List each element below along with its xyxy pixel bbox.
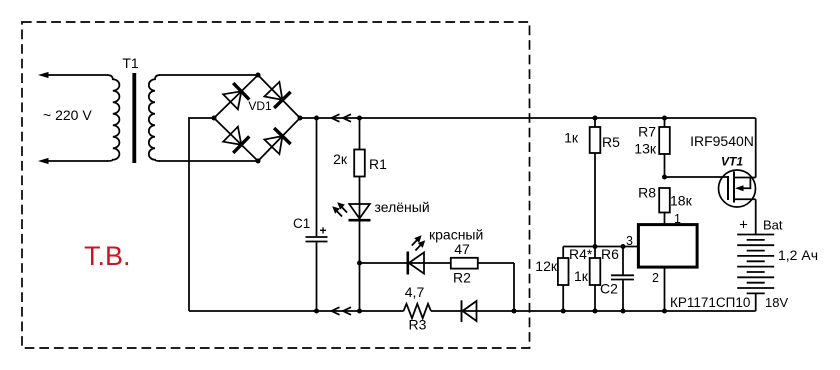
transformer core [132,73,136,163]
svg-text:КР1171СП10: КР1171СП10 [670,295,750,310]
channel bar [733,172,735,203]
node gate R7/R8 junction [662,175,667,180]
wire gate from R7/R8 node [665,176,729,178]
svg-text:R5: R5 [602,134,620,150]
drain stub top [734,177,756,179]
light arrows red LED [412,235,425,250]
battery Bat [737,217,818,312]
light arrows green LED [332,202,347,216]
svg-text:VT1: VT1 [721,155,743,169]
resistor R1 [333,118,387,204]
node bridge DC plus junction [298,116,303,121]
svg-text:R1: R1 [369,156,387,172]
node C2 bottom junction [621,309,626,314]
wire R2 branch down to rail [513,263,515,311]
svg-text:R6: R6 [601,246,619,262]
svg-text:1: 1 [674,212,681,226]
wire top rail [300,117,756,119]
dashed TV enclosure box [22,22,530,348]
node R1 top junction [357,116,362,121]
node bridge AC top junction [256,73,261,78]
node pin3 R5/R6 junction [593,244,598,249]
wire bridge minus to left vertical [189,118,214,311]
node green LED / red branch junction [357,261,362,266]
svg-text:13к: 13к [634,141,657,157]
resistor R2 [451,241,478,286]
wire primary top with arrow [38,72,108,78]
svg-text:Bat: Bat [763,218,783,233]
diode on bottom rail [462,300,477,322]
resistor R5 [564,118,620,247]
node pin3 C2 junction [621,244,626,249]
svg-text:12к: 12к [535,258,558,274]
wire bottom rail right segment [431,310,756,312]
svg-text:18V: 18V [765,295,788,310]
svg-text:47: 47 [454,241,470,257]
svg-text:C1: C1 [293,216,310,231]
svg-text:VD1: VD1 [248,99,272,113]
svg-text:18к: 18к [670,193,693,209]
svg-text:зелёный: зелёный [375,199,430,215]
svg-text:2к: 2к [333,151,348,167]
svg-text:3: 3 [626,234,633,248]
wire primary bottom with arrow [38,158,108,164]
gate electrode [727,176,729,200]
svg-text:R7: R7 [638,124,656,140]
wire secondary top to bridge [159,74,258,76]
diode VD1b (top-right) [264,82,290,108]
resistor R3 (zigzag) [404,284,432,333]
diode VD1c (left-bottom) [223,127,249,153]
diode VD1a (left-top) [223,83,249,109]
capacitor C1 [293,118,328,311]
resistor R8 [638,185,692,225]
svg-text:1,2 Ач: 1,2 Ач [778,247,818,263]
node bridge AC bottom junction [256,159,261,164]
wire pin2 to rail [664,267,666,311]
node C1 bottom junction [314,309,319,314]
resistor R7 [634,118,670,177]
node R6 bottom junction [593,309,598,314]
LED green (zeljony) [332,199,429,311]
svg-text:T1: T1 [122,55,139,71]
resistor R6 [574,246,619,311]
svg-text:4,7: 4,7 [405,284,425,300]
svg-text:R8: R8 [638,185,656,201]
diode VD1d (bottom-right) [264,128,290,154]
source stub bottom [734,198,756,200]
node green LED bottom junction [357,309,362,314]
svg-text:+: + [739,217,748,234]
wire pin3 net [563,246,638,248]
wire node to red LED [360,262,408,264]
wire top rail corner down to MOSFET [755,118,757,178]
capacitor C2 [600,247,634,312]
wire secondary bottom to bridge [159,160,258,162]
wire red LED to R2 and corner [408,262,514,264]
wire MOSFET to battery [755,199,757,234]
node bridge DC minus junction [212,116,217,121]
node pin2 rail junction [662,309,667,314]
LED red (krasny) [408,227,484,275]
current arrows on bottom rail [332,307,352,315]
svg-text:+: + [320,224,327,238]
resistor R4* [535,246,593,311]
node R2/diode rail junction [512,309,517,314]
body arrow stub [742,178,751,189]
svg-text:R2: R2 [453,270,471,286]
svg-text:R3: R3 [409,317,427,333]
svg-text:C2: C2 [600,281,618,297]
svg-text:1к: 1к [564,130,579,146]
svg-text:Т.В.: Т.В. [84,241,131,271]
svg-text:2: 2 [652,271,659,285]
svg-text:~ 220 V: ~ 220 V [43,107,92,123]
MOSFET VT1 IRF9540N [690,133,756,207]
node R4 bottom junction [561,309,566,314]
IC U1 KR1171SP10 [626,212,750,311]
node R7 top junction [662,116,667,121]
wire bottom rail left segment [189,310,404,312]
bridge rectifier VD1 [214,75,300,161]
transformer T1 [107,55,160,163]
node R5 top junction [593,116,598,121]
node C1 top junction [314,116,319,121]
bridge diamond wires [214,75,300,161]
svg-text:1к: 1к [574,268,589,284]
current arrows on top rail [332,114,352,122]
transformer primary winding [107,75,119,161]
transformer secondary winding [149,75,160,161]
svg-text:IRF9540N: IRF9540N [690,133,754,149]
